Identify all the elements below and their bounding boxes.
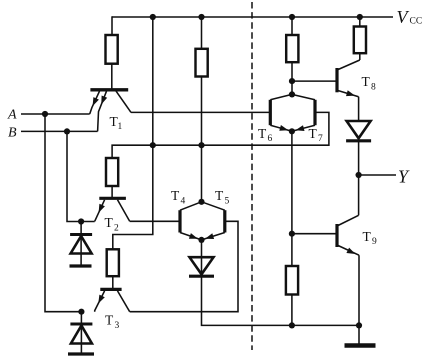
svg-text:T: T	[362, 74, 371, 89]
transistor T4	[171, 188, 202, 240]
wire T9 base	[292, 233, 337, 235]
svg-text:1: 1	[118, 122, 123, 132]
node Vcc-R4	[289, 14, 295, 20]
transistor T3	[95, 289, 130, 331]
node Vcc-R5	[357, 14, 363, 20]
wire long horizontal net y145	[112, 112, 329, 158]
svg-text:T: T	[105, 313, 114, 328]
resistor R4 (middle column)	[196, 49, 208, 77]
svg-text:8: 8	[371, 83, 376, 93]
node bottom rail R6	[289, 322, 295, 328]
svg-text:T: T	[363, 229, 372, 244]
wire output Y	[359, 174, 396, 176]
svg-text:T: T	[105, 215, 114, 230]
wire Vcc column x201 to Rm	[201, 17, 203, 49]
transistor T1 (multi-emitter input)	[90, 90, 131, 132]
resistor R1	[106, 35, 118, 64]
wire R4 to T6/T7 bridge top	[291, 62, 293, 94]
wire Vcc rail	[112, 16, 393, 18]
node T9 base junction	[289, 231, 295, 237]
transistor T7	[292, 94, 323, 144]
dashed divider line	[251, 2, 253, 350]
node T4/T5 emitters	[198, 237, 204, 243]
wire T2 collector to T4 base	[130, 220, 180, 222]
diode D2 (input clamp at T3 emitter)	[70, 312, 92, 353]
wire R2 to T2 base	[111, 186, 113, 198]
node T6/T7 collectors	[289, 91, 295, 97]
transistor T6	[258, 94, 292, 144]
wire x153 down to R3	[113, 145, 153, 249]
wire Rm to T4/T5 bridge top	[201, 77, 203, 202]
wire input A	[21, 113, 90, 115]
diode D4 (output level shift below T8)	[347, 121, 371, 138]
wire input B	[21, 130, 98, 132]
svg-text:5: 5	[225, 197, 230, 207]
resistor R2	[106, 158, 118, 186]
wire Vcc rail to R1	[111, 16, 113, 35]
resistor R6	[354, 27, 366, 54]
transistor T8	[337, 60, 376, 97]
wire Vcc column x153	[152, 17, 154, 145]
wire Vcc to R4	[291, 17, 293, 35]
svg-text:T: T	[258, 126, 267, 141]
node y145-x153	[150, 142, 156, 148]
node B junction	[64, 128, 70, 134]
svg-text:A: A	[7, 108, 17, 123]
wire Vcc to R5	[359, 17, 361, 27]
node T2 emitter junction	[78, 218, 84, 224]
wire B vertical to T2 emitter	[67, 131, 95, 221]
node T6/T7 emitters	[289, 128, 295, 134]
transistor T2	[95, 198, 130, 233]
svg-text:3: 3	[115, 321, 120, 331]
resistor R3	[107, 249, 119, 276]
svg-text:CC: CC	[410, 17, 423, 27]
node T4/T5 collectors	[198, 199, 204, 205]
node Vcc-x201	[198, 14, 204, 20]
node y145-x201	[198, 142, 204, 148]
wire T4/T5 bridge bottom through diode to bottom rail	[202, 240, 360, 326]
ground for D2	[68, 352, 94, 355]
node bottom rail T9	[356, 322, 362, 328]
diode D1 (input clamp at T2 emitter)	[70, 222, 92, 265]
svg-text:B: B	[8, 126, 17, 141]
node T3 emitter junction	[78, 309, 84, 315]
svg-text:2: 2	[114, 224, 119, 234]
svg-text:6: 6	[268, 134, 273, 144]
wire T1 collector to T6 base	[131, 111, 270, 113]
wire R5 to T8 collector	[359, 53, 361, 60]
svg-text:4: 4	[181, 197, 186, 207]
ground for D1	[70, 264, 92, 267]
wire D3 to Y node to T9 collector	[358, 142, 360, 215]
ground (bottom right)	[345, 343, 376, 347]
wire T6/T7 bridge bottom to R6	[291, 131, 293, 266]
svg-text:T: T	[309, 126, 318, 141]
svg-text:T: T	[215, 188, 224, 203]
wire R1 to T1 base	[111, 64, 113, 90]
wire A vertical to T3 emitter	[45, 114, 81, 312]
node Vcc-x153	[150, 14, 156, 20]
diode D3 (between T4/T5 emitters and bottom rail)	[190, 257, 214, 274]
wire R6 to bottom rail	[291, 295, 293, 326]
resistor R5	[286, 35, 298, 62]
svg-text:9: 9	[372, 237, 377, 247]
wire T8 emitter to diode D3	[358, 97, 360, 121]
transistor T5	[202, 188, 230, 240]
node T8 base junction	[289, 78, 295, 84]
wire R3 to T3 base	[112, 276, 114, 289]
resistor R7	[286, 266, 298, 295]
wire ground stub	[358, 325, 360, 343]
svg-text:T: T	[171, 188, 180, 203]
wire T8 base	[292, 80, 337, 82]
wire T9 emitter to bottom rail	[358, 255, 360, 325]
node output Y	[356, 172, 362, 178]
transistor T9	[337, 215, 377, 255]
svg-text:7: 7	[318, 134, 323, 144]
node A junction	[42, 111, 48, 117]
wire T3 collector to T5 base loop	[130, 221, 238, 311]
